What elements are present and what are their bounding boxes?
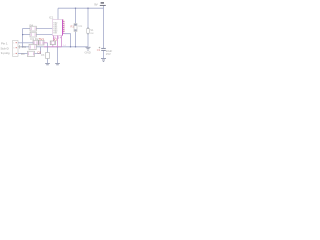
svg-text:9V: 9V — [94, 3, 98, 7]
svg-text:IC1: IC1 — [49, 15, 54, 19]
svg-text:sw: sw — [90, 32, 93, 35]
svg-text:R4: R4 — [30, 23, 34, 27]
svg-text:X1: X1 — [54, 38, 58, 42]
svg-text:GND: GND — [85, 51, 91, 55]
svg-text:C3: C3 — [97, 48, 101, 52]
svg-text:PIC16F84: PIC16F84 — [55, 22, 58, 33]
svg-text:R2: R2 — [23, 45, 27, 49]
svg-text:R3: R3 — [21, 52, 25, 56]
svg-text:9-polig: 9-polig — [1, 51, 10, 55]
svg-text:R1: R1 — [71, 25, 75, 29]
svg-text:R6: R6 — [41, 53, 45, 57]
svg-text:D1: D1 — [31, 37, 35, 41]
svg-text:25V: 25V — [106, 52, 111, 56]
svg-text:5V1: 5V1 — [39, 37, 44, 41]
svg-text:Pin 1: Pin 1 — [1, 42, 8, 46]
svg-text:Sub-D: Sub-D — [1, 47, 9, 51]
